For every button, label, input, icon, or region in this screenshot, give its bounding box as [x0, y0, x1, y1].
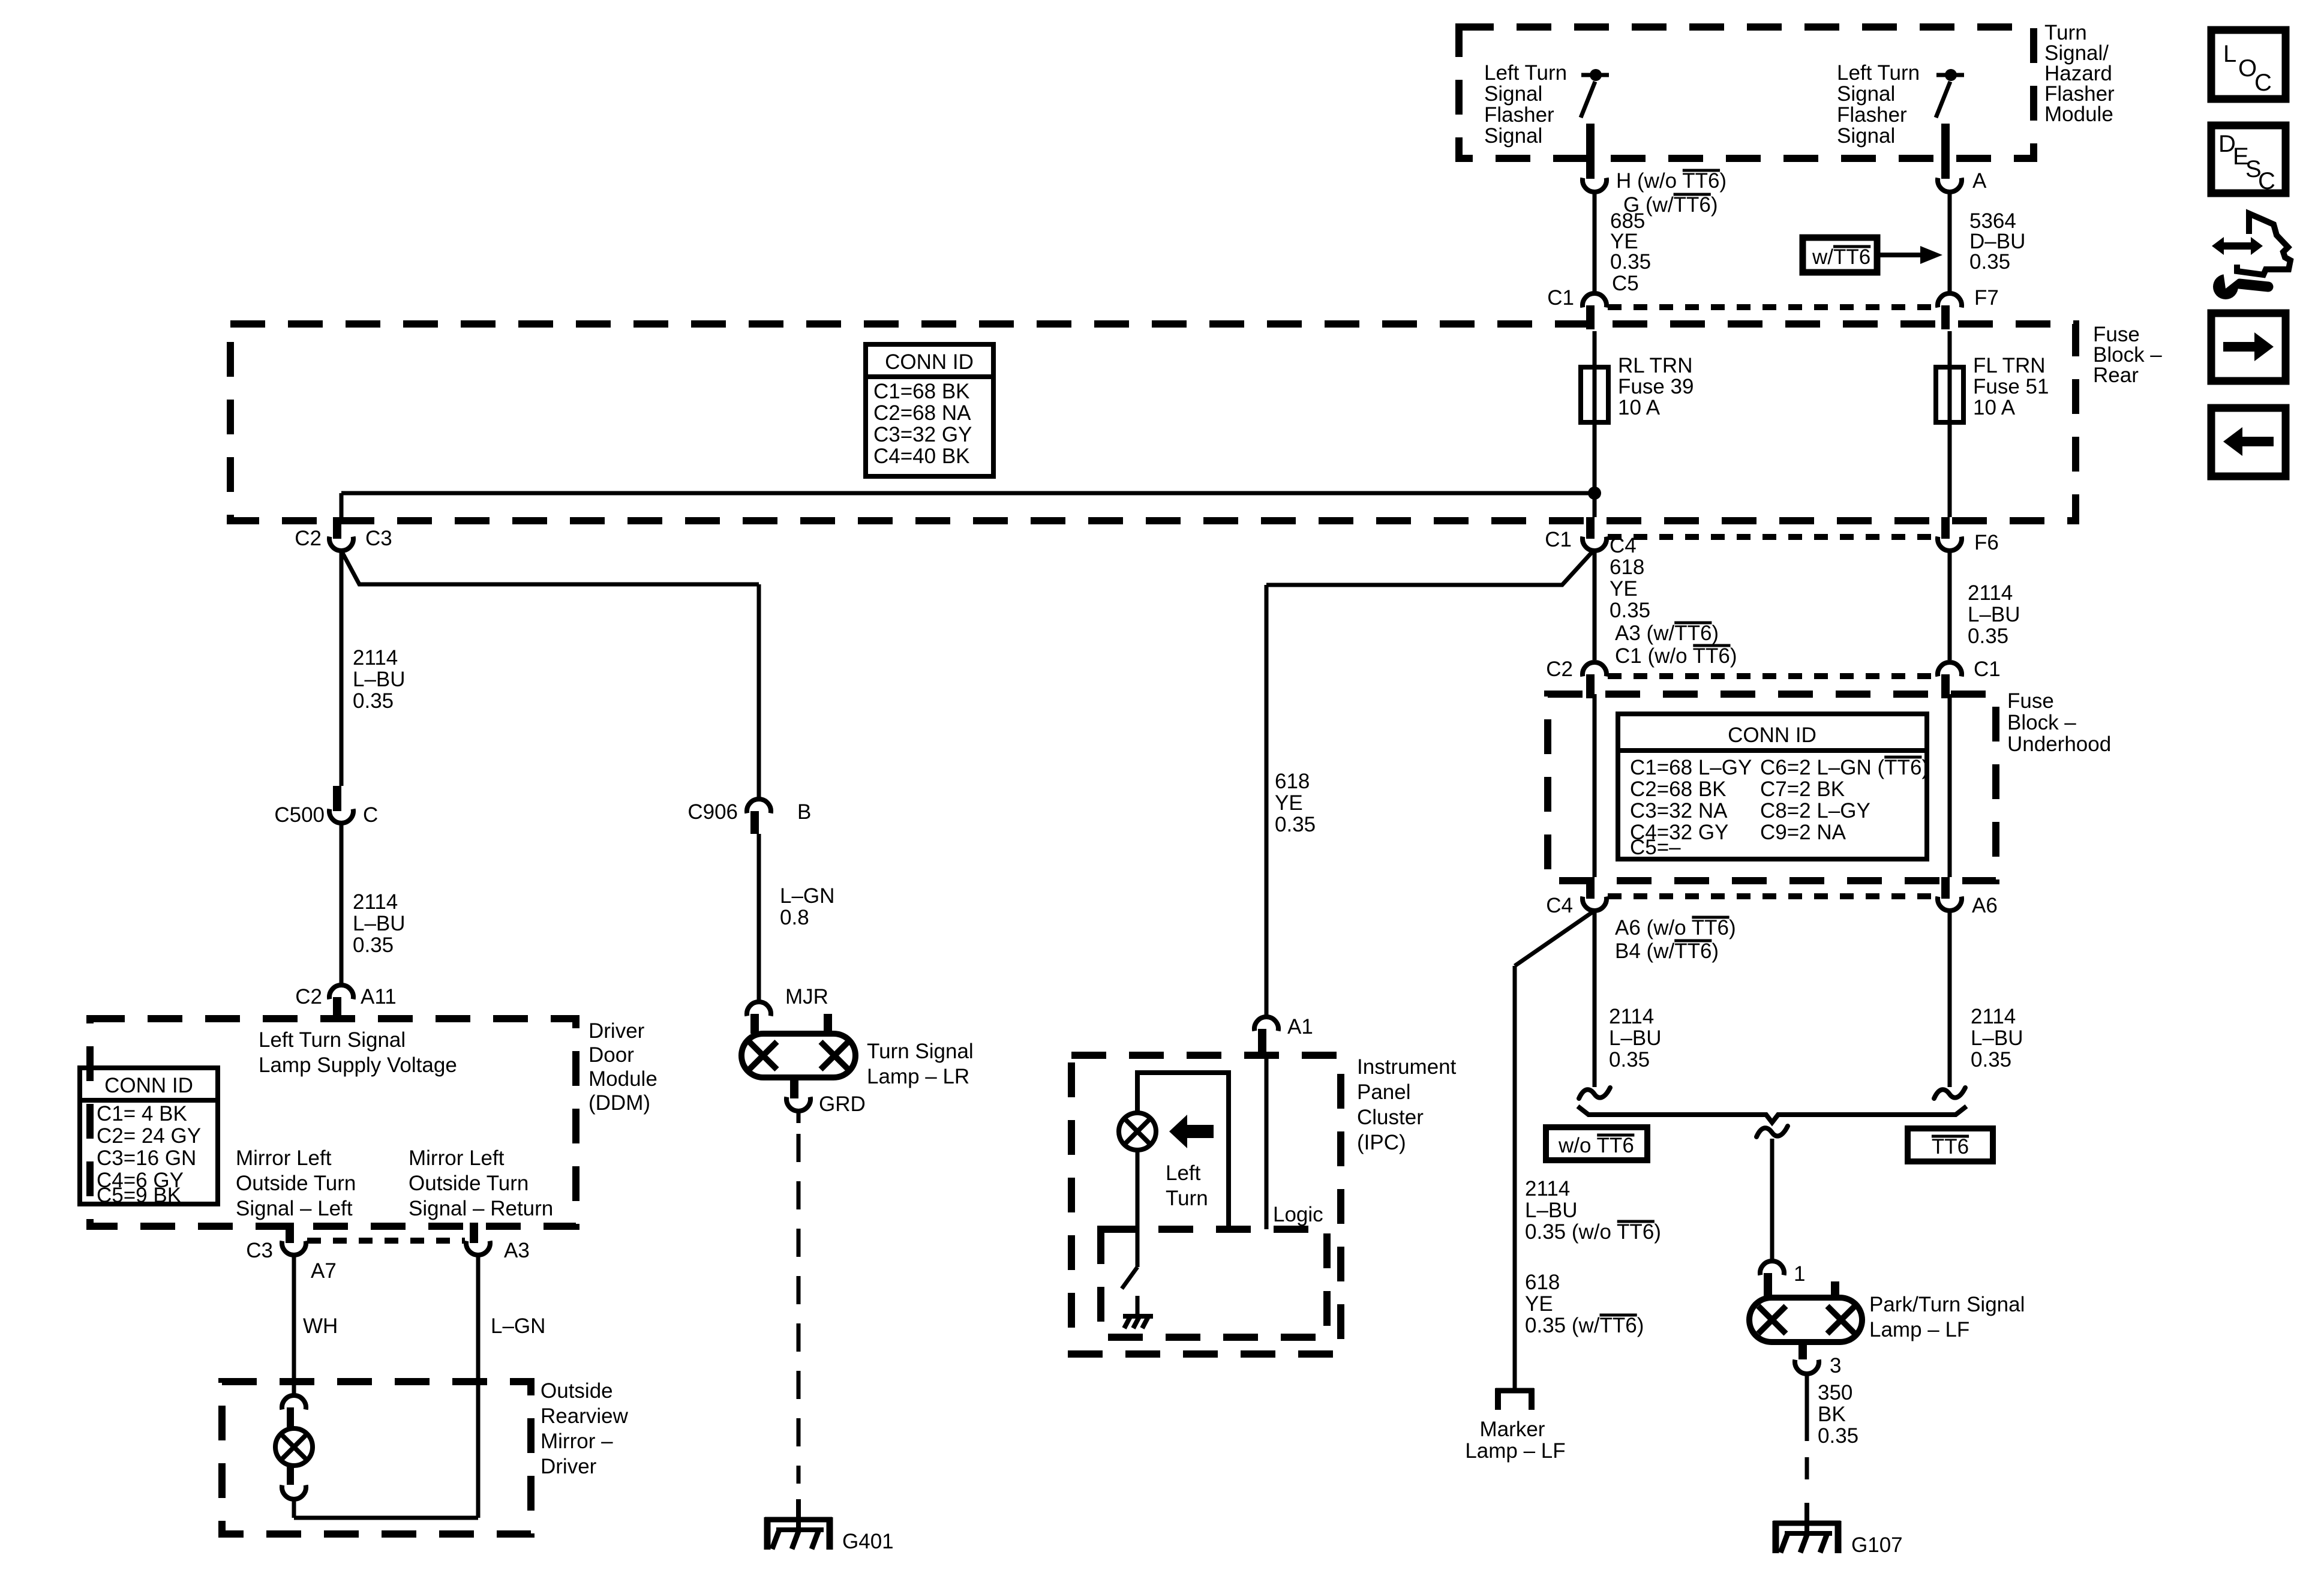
svg-text:Signal: Signal — [1837, 124, 1895, 148]
svg-text:Lamp – LR: Lamp – LR — [867, 1065, 969, 1088]
pin C3 below DDM — [286, 1223, 294, 1243]
wire 5364 D-BU from flasher to fuse block rear — [1948, 192, 1952, 292]
icon vehicle with wrench — [2237, 214, 2290, 275]
svg-text:Block –: Block – — [2007, 711, 2076, 734]
svg-text:Module: Module — [588, 1067, 657, 1091]
svg-text:Signal – Return: Signal – Return — [409, 1197, 553, 1220]
svg-text:C6=2 L–GN (TT6): C6=2 L–GN (TT6) — [1760, 756, 1929, 779]
wire 2114 L-BU to DDM — [340, 823, 344, 985]
pin F6 below fuse block rear — [1941, 517, 1950, 539]
svg-text:GRD: GRD — [819, 1092, 866, 1116]
wire drop to C2/C3 — [340, 493, 344, 517]
svg-text:Turn Signal: Turn Signal — [867, 1040, 974, 1063]
ground G107 — [1773, 1503, 1840, 1553]
connector cup F6 — [1938, 537, 1962, 551]
connector cup C1 underhood — [1938, 662, 1962, 676]
svg-text:F7: F7 — [1974, 286, 1999, 310]
svg-text:CONN ID: CONN ID — [1728, 724, 1816, 747]
svg-text:350: 350 — [1818, 1381, 1852, 1404]
pin GRD of lamp LR — [790, 1077, 798, 1098]
wire C4 to merge (w/o TT6) — [1593, 911, 1597, 1087]
indicator arrow (left) — [1169, 1115, 1214, 1148]
switch left turn signal flasher (right) — [1936, 75, 1964, 118]
pin C500 — [333, 786, 341, 811]
svg-text:Marker: Marker — [1480, 1418, 1545, 1441]
pin into fuse block rear F7 — [1941, 305, 1950, 329]
connector cup C2/C3 — [329, 537, 353, 551]
pin A11 into DDM — [333, 997, 341, 1021]
svg-text:Fuse 39: Fuse 39 — [1618, 375, 1694, 398]
svg-text:Flasher: Flasher — [1837, 103, 1907, 127]
wire into fuse 51 — [1948, 331, 1952, 367]
svg-text:2114: 2114 — [1971, 1005, 2016, 1028]
svg-text:L–BU: L–BU — [1971, 1026, 2023, 1050]
svg-text:CONN ID: CONN ID — [885, 350, 974, 374]
switch blade inside logic — [1122, 1267, 1137, 1289]
svg-text:C2: C2 — [295, 527, 322, 550]
svg-text:Lamp – LF: Lamp – LF — [1465, 1439, 1565, 1463]
wire 618 YE down to A1 — [1265, 585, 1269, 1017]
wire L-GN 0.8 to lamp LR — [757, 834, 761, 1002]
svg-text:FL TRN: FL TRN — [1973, 354, 2046, 377]
svg-text:L–BU: L–BU — [1968, 603, 2020, 626]
logic box inside IPC — [1101, 1229, 1327, 1337]
svg-text:L–BU: L–BU — [353, 912, 406, 935]
svg-text:C1=68 L–GY: C1=68 L–GY — [1630, 756, 1752, 779]
pin C1 below fuse block rear — [1586, 517, 1595, 539]
svg-text:Rearview: Rearview — [541, 1404, 629, 1428]
wire mirror lamp to return — [292, 1499, 296, 1518]
connector cup A3 — [466, 1241, 490, 1255]
svg-text:C5=9 BK: C5=9 BK — [97, 1184, 181, 1207]
svg-text:2114: 2114 — [1525, 1177, 1570, 1200]
in-line connector interface line C5-F7 — [1608, 304, 1936, 310]
svg-text:0.35: 0.35 — [1609, 1048, 1650, 1071]
wire F6 to C1 underhood — [1948, 551, 1952, 660]
wire to internal ground — [1136, 1296, 1140, 1316]
pin A6 below underhood block — [1941, 877, 1950, 899]
wire branch C4 to marker lamp — [1515, 911, 1595, 966]
wire C1 to C2 underhood — [1593, 551, 1597, 660]
svg-text:618: 618 — [1610, 556, 1644, 579]
svg-text:A3: A3 — [504, 1239, 530, 1262]
svg-text:C3=32 NA: C3=32 NA — [1630, 799, 1728, 822]
pin 2 of park/turn lamp LF — [1831, 1281, 1839, 1298]
svg-text:(DDM): (DDM) — [588, 1091, 650, 1115]
svg-text:WH: WH — [303, 1314, 338, 1338]
pin 1 into lamp — [1764, 1273, 1772, 1298]
svg-text:BK: BK — [1818, 1403, 1846, 1426]
svg-text:YE: YE — [1610, 577, 1638, 601]
wire branch to turn signal lamp LR — [341, 551, 759, 584]
svg-text:Signal – Left: Signal – Left — [236, 1197, 353, 1220]
connector cup C2/A11 — [329, 985, 353, 999]
lamp Park/Turn Signal Lamp - LF — [1749, 1298, 1862, 1342]
svg-text:Turn: Turn — [1166, 1187, 1208, 1210]
connector cup A — [1938, 178, 1962, 192]
wire through underhood block (left) — [1593, 694, 1597, 877]
svg-text:C5: C5 — [1612, 272, 1639, 295]
wire L-GN from mirror — [476, 1255, 481, 1518]
pin H/G of flasher module — [1586, 124, 1595, 179]
svg-text:2114: 2114 — [1968, 581, 2013, 605]
svg-text:10 A: 10 A — [1973, 396, 2016, 419]
svg-text:F6: F6 — [1974, 531, 1999, 554]
svg-text:0.35: 0.35 — [1969, 250, 2010, 274]
svg-text:C4=40 BK: C4=40 BK — [873, 445, 970, 468]
in-line connector interface line C2-C1 — [1608, 673, 1936, 679]
connector cup C3/A7 — [282, 1241, 306, 1255]
arrow shaft w/TT6 — [1877, 253, 1920, 257]
svg-text:0.35: 0.35 — [1818, 1424, 1858, 1448]
svg-text:L: L — [2223, 41, 2236, 67]
svg-text:B4 (w/TT6): B4 (w/TT6) — [1615, 939, 1719, 963]
svg-text:Left Turn: Left Turn — [1484, 61, 1567, 85]
svg-text:0.35: 0.35 — [1968, 625, 2008, 648]
module box Fuse Block - Underhood — [1548, 694, 1996, 881]
svg-text:C3=32 GY: C3=32 GY — [873, 423, 972, 446]
svg-text:A1: A1 — [1287, 1015, 1313, 1038]
ground G401 — [765, 1499, 832, 1550]
svg-text:618: 618 — [1525, 1271, 1560, 1294]
connector cup A6 — [1938, 897, 1962, 911]
svg-text:A7: A7 — [311, 1259, 337, 1283]
svg-text:L–GN: L–GN — [491, 1314, 545, 1338]
in-line connector interface line C4-A6 — [1608, 893, 1936, 899]
svg-text:C1= 4 BK: C1= 4 BK — [97, 1102, 187, 1125]
pin A1 into IPC — [1258, 1029, 1266, 1055]
svg-text:Signal: Signal — [1837, 82, 1895, 106]
svg-text:Outside Turn: Outside Turn — [236, 1172, 356, 1195]
svg-text:C1 (w/o TT6): C1 (w/o TT6) — [1615, 644, 1737, 668]
CONN ID table (DDM) — [80, 1068, 218, 1204]
lamp Turn Signal Lamp - LR — [741, 1034, 855, 1077]
icon box arrow left — [2211, 408, 2286, 476]
module box Fuse Block - Rear — [230, 324, 2076, 521]
svg-text:C2=68 BK: C2=68 BK — [1630, 778, 1727, 801]
wire GRD stub — [797, 1111, 801, 1123]
module box Instrument Panel Cluster (IPC) — [1071, 1055, 1341, 1354]
option tag box TT6 — [1908, 1128, 1993, 1161]
svg-text:Park/Turn Signal: Park/Turn Signal — [1869, 1293, 2025, 1316]
svg-text:0.35: 0.35 — [353, 933, 394, 957]
wire break symbol (TT6 wire end) — [1934, 1088, 1965, 1098]
svg-text:0.35: 0.35 — [1971, 1048, 2011, 1071]
svg-text:B: B — [797, 800, 811, 824]
wire fuse 39 to C1 pin — [1593, 422, 1597, 517]
connector cup C2 underhood — [1583, 662, 1607, 676]
svg-text:0.35: 0.35 — [353, 689, 394, 713]
wire through underhood block (right) — [1948, 694, 1952, 877]
wire 618 YE branch to IPC — [1266, 551, 1593, 585]
option tag box w/o TT6 — [1546, 1127, 1647, 1160]
svg-text:Panel: Panel — [1357, 1080, 1411, 1104]
module box Driver Door Module (DDM) — [90, 1019, 576, 1226]
hidden wire dash to G107 — [1805, 1457, 1809, 1479]
svg-text:Signal: Signal — [1484, 124, 1542, 148]
svg-text:A11: A11 — [361, 985, 397, 1008]
svg-text:MJR: MJR — [785, 985, 828, 1008]
svg-text:C4: C4 — [1546, 894, 1573, 917]
svg-text:C2= 24 GY: C2= 24 GY — [97, 1124, 201, 1148]
pin below mirror bulb — [287, 1466, 294, 1485]
svg-text:C2: C2 — [295, 985, 322, 1008]
wire 350 BK to ground — [1805, 1374, 1809, 1441]
svg-text:C7=2 BK: C7=2 BK — [1760, 778, 1845, 801]
option tag box w/TT6 with arrow — [1803, 238, 1877, 272]
svg-text:YE: YE — [1525, 1292, 1553, 1316]
connector cup MJR — [747, 1002, 771, 1016]
svg-text:C1: C1 — [1974, 658, 2001, 681]
svg-text:0.35 (w/o TT6): 0.35 (w/o TT6) — [1525, 1220, 1661, 1244]
svg-text:Mirror –: Mirror – — [541, 1430, 613, 1453]
wire into fuse 39 — [1593, 331, 1597, 367]
wire to marker lamp LF — [1513, 966, 1517, 1391]
svg-text:Flasher: Flasher — [1484, 103, 1554, 127]
connector cup C500/C — [329, 809, 353, 823]
svg-text:A: A — [1972, 169, 1987, 193]
fuse FL TRN Fuse 51 10A — [1936, 367, 1963, 422]
svg-text:L–GN: L–GN — [780, 884, 834, 908]
svg-text:C1=68 BK: C1=68 BK — [873, 380, 970, 403]
icon box DESC — [2211, 125, 2286, 193]
svg-text:L–BU: L–BU — [1609, 1026, 1662, 1050]
svg-text:TT6: TT6 — [1932, 1135, 1969, 1158]
connector cup C4 — [1583, 897, 1607, 911]
svg-text:C1: C1 — [1547, 286, 1574, 310]
svg-text:H (w/o TT6): H (w/o TT6) — [1616, 169, 1727, 193]
svg-text:C3: C3 — [365, 527, 392, 550]
terminator marker lamp LF — [1496, 1388, 1534, 1410]
svg-text:0.8: 0.8 — [780, 906, 809, 929]
bus wire inside fuse block rear — [341, 491, 1595, 496]
connector cup C1/C5 — [1583, 293, 1607, 307]
svg-text:Module: Module — [2044, 103, 2113, 126]
svg-text:L–BU: L–BU — [353, 668, 406, 691]
svg-text:C5=–: C5=– — [1630, 836, 1681, 859]
svg-text:C906: C906 — [687, 800, 738, 824]
svg-text:L–BU: L–BU — [1525, 1199, 1578, 1222]
junction dot — [1588, 487, 1601, 500]
fuse RL TRN Fuse 39 10A — [1581, 367, 1608, 422]
wire A1 to logic — [1265, 1055, 1269, 1229]
internal ground (logic) — [1123, 1316, 1153, 1328]
wire break symbol below merge — [1756, 1126, 1788, 1137]
svg-text:Mirror Left: Mirror Left — [236, 1146, 332, 1170]
svg-text:2114: 2114 — [353, 890, 398, 914]
wire bulb feed inside IPC — [1137, 1073, 1229, 1229]
bulb Left Turn indicator — [1119, 1113, 1156, 1150]
svg-text:2114: 2114 — [1609, 1005, 1654, 1028]
svg-text:C8=2 L–GY: C8=2 L–GY — [1760, 799, 1870, 822]
svg-text:Cluster: Cluster — [1357, 1106, 1424, 1129]
svg-text:C: C — [363, 803, 378, 827]
in-line connector interface line C4-F6 — [1608, 534, 1936, 540]
svg-text:Outside Turn: Outside Turn — [409, 1172, 529, 1195]
pin C4 below underhood block — [1586, 877, 1595, 899]
svg-text:Logic: Logic — [1273, 1203, 1323, 1226]
pin C2 below fuse block rear (left) — [333, 517, 341, 539]
connector cup pin 3 — [1795, 1360, 1819, 1374]
svg-text:Signal: Signal — [1484, 82, 1542, 106]
pin A3 below DDM — [470, 1223, 478, 1243]
connector cup GRD — [786, 1097, 810, 1111]
svg-text:Instrument: Instrument — [1357, 1055, 1457, 1079]
hidden wire to G401 — [797, 1134, 801, 1484]
pin into mirror turn lamp — [287, 1407, 294, 1428]
svg-text:CONN ID: CONN ID — [104, 1074, 193, 1097]
pin MJR into lamp LR — [750, 1014, 759, 1034]
svg-text:A6 (w/o TT6): A6 (w/o TT6) — [1615, 916, 1736, 939]
connector cup mirror lamp return — [282, 1485, 306, 1499]
wire WH to mirror — [292, 1255, 296, 1395]
svg-text:0.35 (w/TT6): 0.35 (w/TT6) — [1525, 1314, 1644, 1337]
svg-text:G107: G107 — [1851, 1533, 1903, 1557]
arrowhead w/TT6 — [1920, 246, 1942, 264]
svg-text:C3=16 GN: C3=16 GN — [97, 1146, 196, 1170]
connector cup pin 1 — [1760, 1261, 1784, 1275]
bulb mirror turn signal lamp — [275, 1428, 313, 1466]
svg-text:RL TRN: RL TRN — [1618, 354, 1692, 377]
connector cup H/G — [1583, 178, 1607, 192]
module box Turn Signal/Hazard Flasher Module — [1459, 27, 2034, 158]
pin into fuse block rear C1 — [1586, 305, 1595, 329]
pin 2 of lamp LR — [824, 1014, 832, 1034]
svg-text:2114: 2114 — [353, 646, 398, 670]
module box Outside Rearview Mirror - Driver — [222, 1382, 531, 1534]
svg-text:Outside: Outside — [541, 1379, 613, 1403]
svg-text:C2: C2 — [1546, 658, 1573, 681]
pin C1 into fuse block underhood — [1941, 674, 1950, 698]
svg-text:Left Turn Signal: Left Turn Signal — [259, 1028, 406, 1052]
connector cup A1 — [1254, 1017, 1278, 1031]
switch left turn signal flasher (left) — [1581, 75, 1609, 118]
pin A of flasher module — [1941, 124, 1950, 179]
svg-text:(IPC): (IPC) — [1357, 1131, 1406, 1154]
svg-text:Driver: Driver — [541, 1455, 597, 1478]
connector cup C906/B — [747, 799, 771, 813]
connector cup C1/C4 — [1583, 537, 1607, 551]
icon box LOC — [2211, 30, 2286, 99]
in-line connector interface line C3-A3 — [307, 1238, 465, 1244]
svg-text:Left: Left — [1166, 1161, 1201, 1185]
connector cup F7 — [1938, 293, 1962, 307]
svg-text:C3: C3 — [246, 1239, 273, 1262]
pin C2 into fuse block underhood — [1586, 674, 1595, 698]
wire 685 YE from flasher to fuse block rear — [1593, 192, 1597, 292]
svg-text:Rear: Rear — [2093, 364, 2139, 387]
wire down to C906 — [757, 584, 761, 799]
wire return bottom run — [294, 1516, 478, 1520]
svg-text:C9=2 NA: C9=2 NA — [1760, 821, 1846, 844]
icon box arrow right — [2211, 313, 2286, 381]
wire merge to park/turn lamp LF — [1770, 1139, 1774, 1261]
svg-text:1: 1 — [1794, 1262, 1805, 1286]
svg-text:Underhood: Underhood — [2007, 733, 2111, 756]
svg-text:Driver: Driver — [588, 1019, 645, 1043]
svg-text:0.35: 0.35 — [1610, 599, 1650, 622]
svg-text:YE: YE — [1275, 791, 1303, 815]
wire 2114 L-BU to C500 — [340, 551, 344, 786]
pin 3 of park/turn lamp LF — [1798, 1341, 1807, 1359]
svg-text:Door: Door — [588, 1043, 634, 1067]
svg-text:C1: C1 — [1545, 528, 1572, 551]
wire fuse 51 to F6 pin — [1948, 422, 1952, 517]
svg-text:A3 (w/TT6): A3 (w/TT6) — [1615, 622, 1719, 645]
CONN ID table (fuse block underhood) — [1618, 714, 1927, 859]
svg-text:C: C — [2258, 168, 2275, 194]
svg-text:0.35: 0.35 — [1610, 250, 1651, 274]
svg-text:Lamp – LF: Lamp – LF — [1869, 1318, 1969, 1341]
svg-text:w/TT6: w/TT6 — [1812, 245, 1870, 269]
svg-text:w/o TT6: w/o TT6 — [1558, 1134, 1634, 1157]
wire break symbol (w/o TT6 wire end) — [1579, 1088, 1610, 1098]
svg-text:Left Turn: Left Turn — [1837, 61, 1920, 85]
svg-text:Mirror Left: Mirror Left — [409, 1146, 505, 1170]
svg-text:10 A: 10 A — [1618, 396, 1661, 419]
wire A6 to merge (TT6) — [1948, 911, 1952, 1087]
svg-text:Fuse 51: Fuse 51 — [1973, 375, 2049, 398]
svg-text:Lamp Supply Voltage: Lamp Supply Voltage — [259, 1053, 457, 1077]
svg-text:C2=68 NA: C2=68 NA — [873, 401, 971, 425]
svg-text:3: 3 — [1830, 1354, 1841, 1377]
svg-text:G401: G401 — [842, 1530, 894, 1553]
svg-text:A6: A6 — [1972, 894, 1998, 917]
connector cup mirror turn lamp — [282, 1395, 306, 1409]
svg-text:618: 618 — [1275, 770, 1310, 793]
svg-text:0.35: 0.35 — [1275, 813, 1316, 836]
pin B of C906 — [750, 811, 759, 834]
svg-text:C: C — [2254, 70, 2272, 96]
svg-text:C500: C500 — [274, 803, 325, 827]
wire bulb to logic switch — [1136, 1150, 1140, 1267]
CONN ID table (fuse block rear) — [866, 344, 993, 476]
svg-text:Fuse: Fuse — [2007, 689, 2054, 713]
options merge brace — [1578, 1106, 1966, 1122]
